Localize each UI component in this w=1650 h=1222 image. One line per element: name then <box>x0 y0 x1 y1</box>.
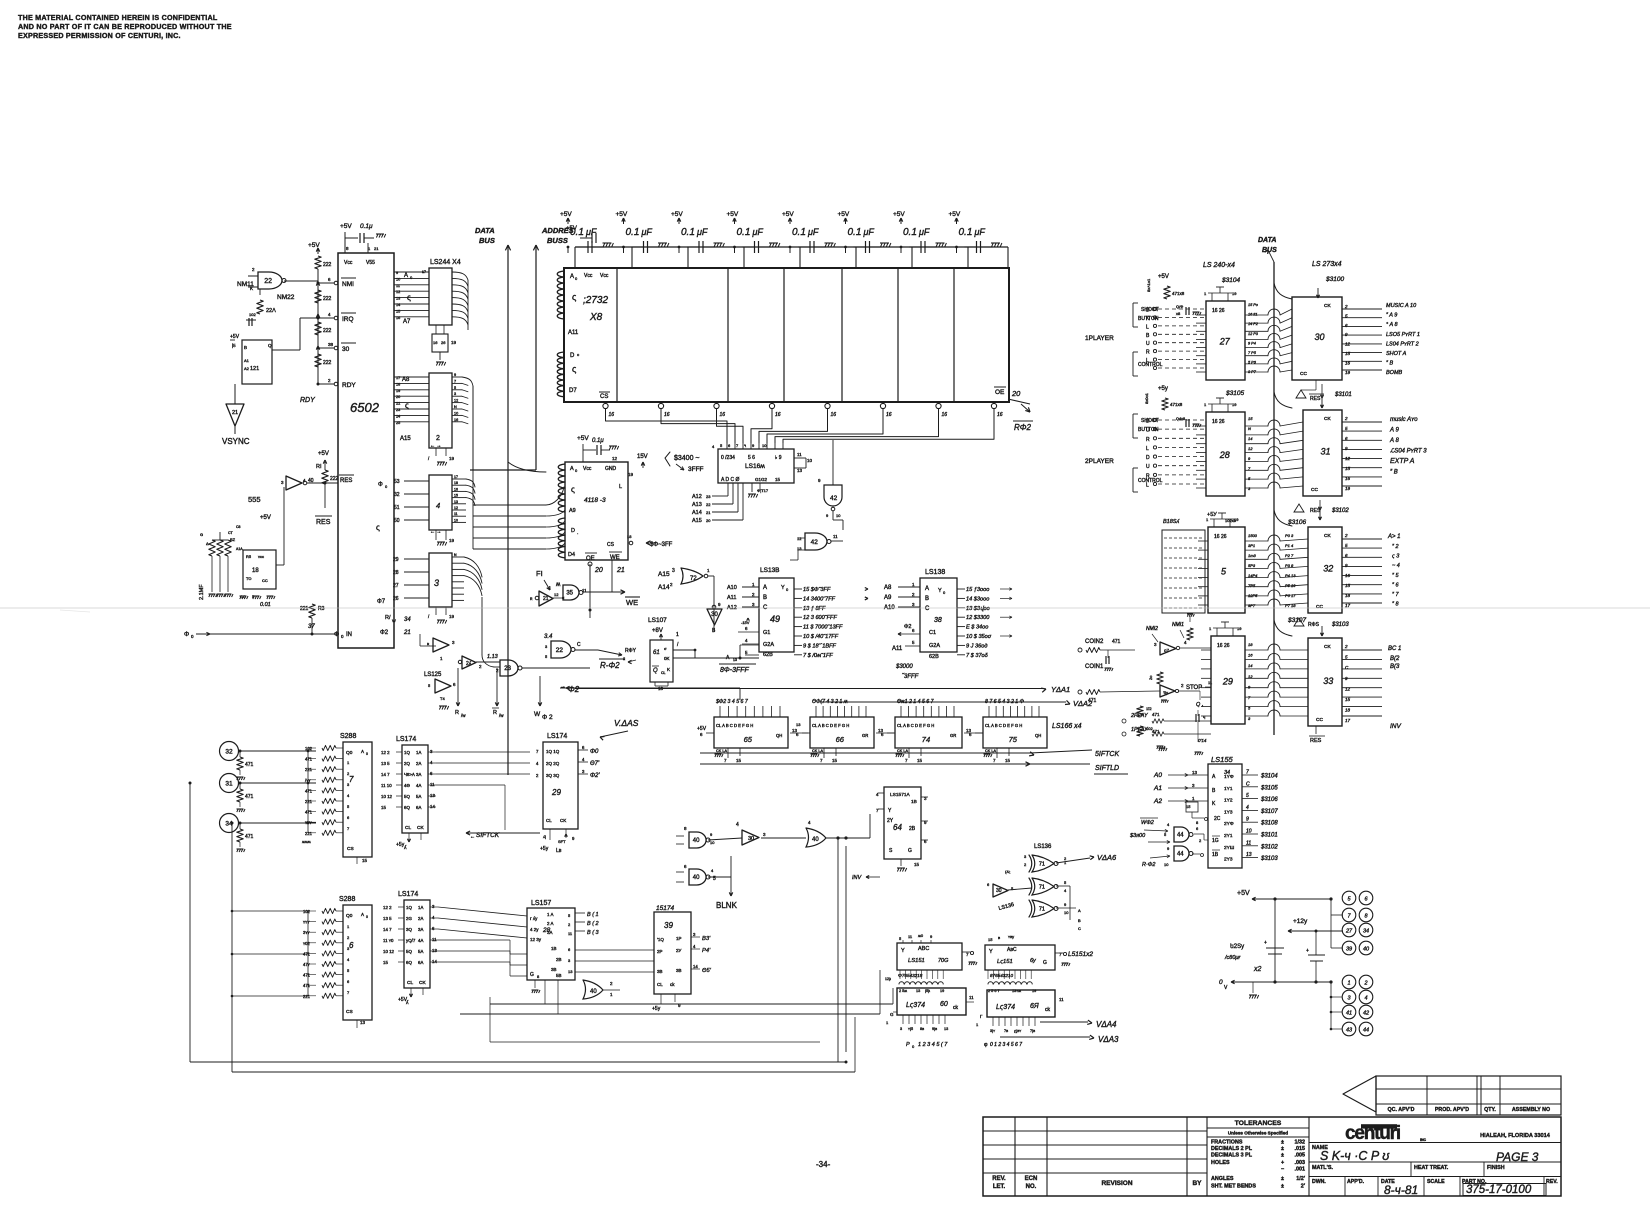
svg-text:34: 34 <box>404 617 411 623</box>
svg-text:HOLES: HOLES <box>1211 1160 1230 1166</box>
svg-text:VSYNC: VSYNC <box>222 437 250 446</box>
svg-text:$3106: $3106 <box>1260 797 1278 803</box>
svg-text:music Aʏο: music Aʏο <box>1390 417 1418 423</box>
svg-text:10 12: 10 12 <box>381 794 393 799</box>
svg-text:1т3: 1т3 <box>1248 553 1257 558</box>
svg-text:RDY: RDY <box>300 397 316 404</box>
svg-text:$3104: $3104 <box>1221 277 1240 284</box>
svg-text:W: W <box>392 618 396 623</box>
svg-text:4: 4 <box>1364 996 1367 1002</box>
svg-text:6502: 6502 <box>350 400 380 415</box>
svg-text:10 $ 35οσ: 10 $ 35οσ <box>966 634 992 640</box>
svg-text:1В: 1В <box>1212 852 1219 858</box>
svg-text:ʏʏʏ: ʏʏʏ <box>303 920 310 925</box>
svg-text:12 $3300: 12 $3300 <box>966 615 990 621</box>
svg-text:15V: 15V <box>637 454 648 460</box>
svg-text:Ч8>A: Ч8>A <box>404 772 415 777</box>
svg-text:G: G <box>890 1012 894 1017</box>
svg-text:Vcc: Vcc <box>584 273 593 279</box>
svg-text:CK LA: CK LA <box>897 749 908 753</box>
svg-text:471: 471 <box>305 757 313 762</box>
svg-text:+5у: +5у <box>540 846 549 852</box>
svg-text:0: 0 <box>366 915 368 919</box>
svg-text:19: 19 <box>396 389 400 393</box>
svg-text:4: 4 <box>1246 805 1249 811</box>
svg-text:SFT: SFT <box>558 839 566 844</box>
svg-text:5: 5 <box>1246 793 1249 799</box>
svg-text:1Y2: 1Y2 <box>1224 798 1233 804</box>
svg-text:.015: .015 <box>1295 1146 1306 1152</box>
svg-text:2: 2 <box>1363 981 1367 987</box>
svg-text:COIN1: COIN1 <box>1085 664 1104 670</box>
svg-text:CS: CS <box>347 846 354 852</box>
svg-text:471: 471 <box>305 788 313 793</box>
svg-text:12: 12 <box>1248 446 1253 451</box>
svg-text:.001: .001 <box>1295 1167 1306 1173</box>
svg-text:11: 11 <box>1246 840 1251 846</box>
svg-text:R: R <box>455 710 459 716</box>
svg-text:2.1MF: 2.1MF <box>199 584 205 600</box>
svg-text:ʏ02: ʏ02 <box>303 941 311 946</box>
svg-text:CS: CS <box>607 542 615 548</box>
svg-text:CONTROL: CONTROL <box>1138 362 1163 368</box>
svg-text:C: C <box>1078 926 1081 931</box>
svg-text:ʍ0: ʍ0 <box>918 933 924 938</box>
svg-text:ς: ς <box>572 292 577 302</box>
svg-text:0.1μ: 0.1μ <box>592 438 604 444</box>
svg-text:4A: 4A <box>418 938 423 943</box>
svg-text:16: 16 <box>831 412 837 418</box>
svg-text:″ 6: ″ 6 <box>1392 582 1399 588</box>
svg-text:20: 20 <box>1011 389 1021 398</box>
svg-text:15: 15 <box>988 937 993 942</box>
svg-text:72: 72 <box>690 576 697 582</box>
svg-text:23: 23 <box>396 408 400 412</box>
svg-text:471: 471 <box>303 983 311 988</box>
svg-text:$3102: $3102 <box>1260 844 1278 850</box>
svg-text:μF: μF <box>918 227 930 237</box>
svg-text:QC. APV’D: QC. APV’D <box>1388 1107 1415 1113</box>
svg-text:6: 6 <box>349 941 354 950</box>
svg-text:±: ± <box>1281 1184 1284 1190</box>
svg-text:R: R <box>1146 437 1150 443</box>
svg-text:L5151х2: L5151х2 <box>1068 951 1093 958</box>
svg-text:$3000: $3000 <box>895 664 913 670</box>
svg-text:16 26: 16 26 <box>1212 308 1225 314</box>
svg-text:2YШ: 2YШ <box>1224 845 1234 851</box>
svg-text:٩: ٩ <box>744 443 746 448</box>
svg-text:222: 222 <box>323 262 332 268</box>
svg-text:RΦY: RΦY <box>625 648 637 654</box>
svg-text:G: G <box>530 972 534 978</box>
svg-text:20: 20 <box>706 518 711 523</box>
svg-text:ς: ς <box>571 485 575 494</box>
svg-text:28: 28 <box>393 570 399 576</box>
svg-text:221: 221 <box>300 606 309 612</box>
svg-text:2Y3: 2Y3 <box>1224 857 1233 863</box>
svg-text:16: 16 <box>886 412 892 418</box>
svg-text:$3107: $3107 <box>1287 617 1306 624</box>
svg-text:43: 43 <box>1346 1028 1353 1034</box>
svg-text:5: 5 <box>454 386 456 390</box>
svg-text:10: 10 <box>762 443 767 448</box>
svg-text:12: 12 <box>612 456 618 461</box>
svg-text:471: 471 <box>245 762 254 768</box>
svg-text:1B: 1B <box>911 799 917 805</box>
svg-text:Τ4: Τ4 <box>440 696 445 701</box>
svg-text:6Q: 6Q <box>406 960 412 965</box>
svg-text:A0: A0 <box>1153 772 1162 779</box>
svg-text:OE: OE <box>995 389 1005 396</box>
svg-text:Φ 2: Φ 2 <box>542 714 553 721</box>
svg-text:AND NO PART OF IT CAN BE REPRO: AND NO PART OF IT CAN BE REPRODUCED WITH… <box>18 22 232 31</box>
svg-text:23: 23 <box>504 666 511 672</box>
svg-text:+5V: +5V <box>318 451 329 457</box>
svg-text:40: 40 <box>693 875 700 881</box>
svg-text:A 8: A 8 <box>1389 438 1399 444</box>
svg-text:5Р3: 5Р3 <box>1248 563 1256 568</box>
svg-text:A: A <box>361 749 364 754</box>
svg-text:15: 15 <box>362 858 368 863</box>
svg-text:10: 10 <box>454 411 458 415</box>
svg-text:Q0: Q0 <box>346 750 353 756</box>
svg-text:В18Sʎ: В18Sʎ <box>1163 519 1180 525</box>
svg-text:GND: GND <box>605 466 617 472</box>
svg-text:μF: μF <box>752 227 764 237</box>
svg-text:10: 10 <box>1064 910 1069 915</box>
svg-text:|5: |5 <box>232 343 236 348</box>
svg-text:18: 18 <box>1345 593 1351 598</box>
svg-text:40: 40 <box>590 989 597 995</box>
svg-text:D7: D7 <box>569 388 577 394</box>
svg-text:Lς151: Lς151 <box>997 959 1013 965</box>
svg-text:2Y1: 2Y1 <box>1224 833 1233 839</box>
svg-text:BUSS: BUSS <box>547 236 568 245</box>
svg-text:ANGLES: ANGLES <box>1211 1176 1234 1182</box>
svg-text:15174: 15174 <box>656 905 674 912</box>
svg-text:26: 26 <box>441 340 446 345</box>
svg-text:vcc: vcc <box>258 554 264 559</box>
svg-text:44: 44 <box>1177 833 1184 839</box>
svg-text:° A 8: ° A 8 <box>1386 322 1399 328</box>
svg-text:12 2: 12 2 <box>383 905 392 910</box>
svg-text:A9: A9 <box>569 508 576 514</box>
svg-text:″ 2: ″ 2 <box>1392 544 1399 550</box>
svg-text:+: + <box>1306 948 1309 954</box>
svg-text:D: D <box>1146 308 1150 314</box>
svg-text:/ϲ80μғ: /ϲ80μғ <box>1224 955 1241 961</box>
svg-text:Q: Q <box>653 668 658 674</box>
svg-text:5A: 5A <box>418 949 423 954</box>
svg-text:A: A <box>570 274 574 280</box>
svg-text:15: 15 <box>1005 758 1011 763</box>
svg-text:D: D <box>570 353 575 359</box>
svg-text:˜3FFF: ˜3FFF <box>902 674 919 680</box>
svg-text:MUSIC A 10: MUSIC A 10 <box>1386 303 1417 309</box>
svg-text:10 $ /40˜17FF: 10 $ /40˜17FF <box>803 634 839 640</box>
svg-text:S K-ч ·C P ʊ: S K-ч ·C P ʊ <box>1320 1149 1390 1163</box>
svg-text:2ο: 2ο <box>1148 675 1153 680</box>
svg-text:30: 30 <box>748 836 754 842</box>
svg-text:10: 10 <box>710 840 715 845</box>
svg-text:33: 33 <box>1323 676 1333 686</box>
svg-text:2A: 2A <box>416 761 421 766</box>
svg-text:В3': В3' <box>702 936 711 942</box>
svg-text:Φ2: Φ2 <box>380 630 389 636</box>
svg-text:CS: CS <box>600 394 608 400</box>
svg-text:62B: 62B <box>929 654 939 660</box>
svg-text:13: 13 <box>916 989 920 993</box>
svg-text:+5V: +5V <box>893 211 905 218</box>
svg-text:DECIMALS 3 PL: DECIMALS 3 PL <box>1211 1153 1253 1159</box>
svg-text:5Q: 5Q <box>404 794 410 799</box>
svg-text:VΔA6: VΔA6 <box>1097 853 1117 862</box>
svg-text:41: 41 <box>1346 1011 1352 1017</box>
svg-text:RDY: RDY <box>342 382 356 389</box>
svg-text:16: 16 <box>942 412 948 418</box>
svg-text:C1: C1 <box>929 630 936 636</box>
svg-text:R5: R5 <box>246 554 252 559</box>
svg-text:21: 21 <box>616 567 625 574</box>
svg-text:D4: D4 <box>568 552 575 558</box>
svg-text:'1Q: '1Q <box>657 937 664 942</box>
svg-text:CC: CC <box>1311 487 1318 493</box>
svg-text:CK: CK <box>1324 533 1331 539</box>
svg-text:LS16ʍ: LS16ʍ <box>745 463 765 470</box>
svg-text:17: 17 <box>1345 603 1351 608</box>
svg-text:Lς374: Lς374 <box>996 1004 1015 1011</box>
svg-text:15: 15 <box>1345 466 1351 471</box>
svg-text:12 2: 12 2 <box>381 750 390 755</box>
svg-text:ς 3: ς 3 <box>1392 554 1400 560</box>
svg-text:BOMB: BOMB <box>1386 370 1403 376</box>
svg-text:ς: ς <box>376 523 380 532</box>
svg-text:ς: ς <box>405 401 409 410</box>
svg-text:44: 44 <box>1363 1028 1369 1034</box>
svg-text:0′14: 0′14 <box>1198 738 1207 743</box>
svg-text:2ʎ: 2ʎ <box>466 661 472 667</box>
svg-text:CK: CK <box>1324 644 1331 650</box>
svg-text:SHOT A: SHOT A <box>1386 351 1407 357</box>
svg-text:75: 75 <box>1009 735 1018 744</box>
svg-text:QH: QH <box>776 733 782 738</box>
svg-text:19: 19 <box>449 538 455 543</box>
svg-text:CL: CL <box>405 825 411 831</box>
svg-text:Vcc: Vcc <box>583 466 592 472</box>
svg-text:Vcc: Vcc <box>600 273 609 279</box>
svg-text:27: 27 <box>1345 929 1353 935</box>
svg-text:5В: 5В <box>556 973 562 978</box>
svg-text:375-17-0100: 375-17-0100 <box>1466 1184 1532 1196</box>
svg-text:4: 4 <box>736 822 739 828</box>
svg-text:LS244 X4: LS244 X4 <box>430 259 461 266</box>
svg-text:CK LA: CK LA <box>812 749 823 753</box>
svg-text:A: A <box>404 273 408 279</box>
svg-text:μF: μF <box>641 227 653 237</box>
svg-text:16: 16 <box>1345 360 1351 365</box>
svg-text:RI: RI <box>316 464 322 470</box>
svg-text:12 3у: 12 3у <box>530 937 542 942</box>
svg-text:ς: ς <box>572 364 577 374</box>
svg-text:PROD. APV’D: PROD. APV’D <box>1435 1107 1469 1113</box>
svg-text:Р6 17: Р6 17 <box>1285 593 1296 598</box>
svg-text:G2A: G2A <box>929 643 940 649</box>
svg-text:14: 14 <box>432 959 437 964</box>
svg-text:42: 42 <box>1363 1011 1369 1017</box>
svg-text:13: 13 <box>454 500 458 504</box>
svg-text:ع|вʏ: ع|вʏ <box>1014 1029 1021 1033</box>
svg-text:″ 5: ″ 5 <box>1392 573 1399 579</box>
svg-text:8-ч-81: 8-ч-81 <box>1384 1183 1418 1197</box>
svg-text:±: ± <box>1281 1140 1284 1146</box>
svg-text:2 A: 2 A <box>547 921 554 926</box>
svg-text:7: 7 <box>1246 770 1249 776</box>
svg-text:66: 66 <box>836 735 845 744</box>
svg-text:1ї2: 1ї2 <box>1146 706 1152 711</box>
svg-text:ℒS04 PʏRT 3: ℒS04 PʏRT 3 <box>1390 448 1427 455</box>
svg-text:±: ± <box>1281 1146 1284 1152</box>
svg-text:0.1: 0.1 <box>626 227 640 238</box>
svg-text:23: 23 <box>706 494 711 499</box>
svg-text:15: 15 <box>396 309 400 313</box>
svg-text:12Р5: 12Р5 <box>1248 593 1258 598</box>
svg-text:15: 15 <box>1248 416 1253 421</box>
svg-text:″ A 9: ″ A 9 <box>1386 313 1397 319</box>
svg-text:A 9: A 9 <box>1389 428 1399 434</box>
svg-text:24: 24 <box>396 414 400 418</box>
svg-text:ʍ: ʍ <box>556 582 561 588</box>
svg-text:C: C <box>577 642 581 648</box>
svg-text:10 12: 10 12 <box>383 949 395 954</box>
svg-text:3: 3 <box>434 578 439 588</box>
svg-text:12: 12 <box>1345 342 1351 347</box>
svg-text:13: 13 <box>396 297 400 301</box>
svg-text:$3103: $3103 <box>1260 856 1278 862</box>
svg-text:3Q 3Q: 3Q 3Q <box>546 773 560 778</box>
svg-text:13: 13 <box>1192 770 1198 775</box>
svg-text:4 2у: 4 2у <box>530 927 539 932</box>
svg-text:16 26: 16 26 <box>1214 534 1227 540</box>
svg-text:Y: Y <box>781 585 785 591</box>
svg-text:″ B: ″ B <box>1386 361 1393 367</box>
svg-text:42: 42 <box>811 539 819 546</box>
svg-text:+5у: +5у <box>396 842 405 848</box>
svg-text:1 A: 1 A <box>547 912 554 917</box>
svg-text:μF: μF <box>974 227 986 237</box>
svg-text:10: 10 <box>1246 829 1252 835</box>
svg-text:471х8: 471х8 <box>1172 291 1185 296</box>
svg-text:DATA: DATA <box>1258 237 1276 244</box>
svg-text:16: 16 <box>664 412 670 418</box>
svg-text:10: 10 <box>836 513 841 518</box>
svg-text:22: 22 <box>396 402 400 406</box>
svg-text:$3я00: $3я00 <box>1129 833 1146 839</box>
svg-text:5A: 5A <box>416 794 421 799</box>
svg-text:5 6: 5 6 <box>748 455 755 461</box>
svg-text:16: 16 <box>396 316 400 320</box>
svg-text:ς: ς <box>407 293 411 302</box>
svg-text:Φ|Τ17: Φ|Τ17 <box>757 488 769 493</box>
svg-text:A1: A1 <box>244 358 250 363</box>
svg-text:16: 16 <box>720 412 726 418</box>
svg-text:μF: μF <box>807 227 819 237</box>
svg-text:DWN.: DWN. <box>1312 1179 1326 1185</box>
svg-text:2Р: 2Р <box>657 949 663 954</box>
svg-text:+5V: +5V <box>1158 274 1169 280</box>
svg-text:221: 221 <box>305 767 313 772</box>
svg-text:LS 240-х4: LS 240-х4 <box>1203 262 1235 269</box>
svg-text:40: 40 <box>693 838 700 844</box>
svg-text:CS: CS <box>346 1009 353 1015</box>
svg-text:16: 16 <box>1248 653 1253 658</box>
svg-text:32: 32 <box>1323 564 1333 574</box>
svg-text:Р7 18: Р7 18 <box>1285 603 1296 608</box>
svg-text:.: . <box>577 530 578 536</box>
svg-text:13 5: 13 5 <box>383 916 392 921</box>
svg-text:уQ/7: уQ/7 <box>406 938 416 943</box>
svg-text:B: B <box>763 595 767 601</box>
svg-text:Р4': Р4' <box>702 948 711 954</box>
svg-text:4118 -3: 4118 -3 <box>584 497 606 504</box>
svg-text:LS107: LS107 <box>648 617 667 624</box>
svg-text:Q0: Q0 <box>346 913 353 919</box>
svg-text:ʏву: ʏву <box>1008 934 1014 939</box>
svg-text:7 $ 37οδ: 7 $ 37οδ <box>966 653 989 659</box>
svg-text:В ( 2: В ( 2 <box>587 921 599 927</box>
svg-text:11 $ 7000˜13FF: 11 $ 7000˜13FF <box>803 625 843 631</box>
svg-text:THE MATERIAL CONTAINED HEREIN: THE MATERIAL CONTAINED HEREIN IS CONFIDE… <box>18 13 218 22</box>
svg-text:0.1: 0.1 <box>792 227 806 238</box>
svg-text:'5у: '5у <box>1163 690 1168 695</box>
svg-text:$3107: $3107 <box>1260 809 1278 815</box>
svg-text:22: 22 <box>706 502 711 507</box>
svg-text:A11: A11 <box>568 330 579 336</box>
svg-text:17: 17 <box>454 475 458 479</box>
svg-text:/w: /w <box>461 713 466 718</box>
svg-text:RΦS: RΦS <box>1308 622 1320 628</box>
svg-text:0.01: 0.01 <box>260 602 271 608</box>
svg-text:WΦ2: WΦ2 <box>1141 820 1154 826</box>
svg-text:DATA: DATA <box>475 226 495 235</box>
svg-text:LSO5 PʏRT 1: LSO5 PʏRT 1 <box>1386 332 1420 338</box>
svg-text:B: B <box>244 345 247 350</box>
svg-text:E $ 34οο: E $ 34οο <box>966 625 988 631</box>
svg-text:0K: 0K <box>664 656 670 661</box>
svg-text:Φ2': Φ2' <box>590 773 600 779</box>
svg-text:12: 12 <box>554 592 559 597</box>
svg-text:13 ƒ 8FF: 13 ƒ 8FF <box>803 606 826 612</box>
svg-text:19: 19 <box>1232 402 1237 407</box>
svg-text:50: 50 <box>394 518 400 524</box>
svg-text:RES: RES <box>340 478 352 484</box>
svg-text:6A: 6A <box>418 960 423 965</box>
svg-text:A: A <box>763 585 767 591</box>
svg-text:х2: х2 <box>1253 966 1262 973</box>
svg-text:$3101: $3101 <box>1260 833 1278 839</box>
svg-text:VΔA3: VΔA3 <box>1098 1035 1119 1044</box>
svg-text:21: 21 <box>232 410 238 416</box>
svg-text:Q4х8: Q4х8 <box>1176 417 1185 421</box>
svg-text:7 Р5: 7 Р5 <box>1248 351 1257 355</box>
svg-text:LS157: LS157 <box>531 900 551 907</box>
svg-text:CK: CK <box>1324 303 1331 309</box>
svg-text:RES: RES <box>316 519 331 526</box>
svg-text:+5V: +5V <box>566 226 577 232</box>
svg-text:21: 21 <box>543 596 549 602</box>
svg-text:COIN2: COIN2 <box>1085 639 1104 645</box>
svg-text:1A: 1A <box>416 750 421 755</box>
svg-text:μF: μF <box>585 227 597 237</box>
